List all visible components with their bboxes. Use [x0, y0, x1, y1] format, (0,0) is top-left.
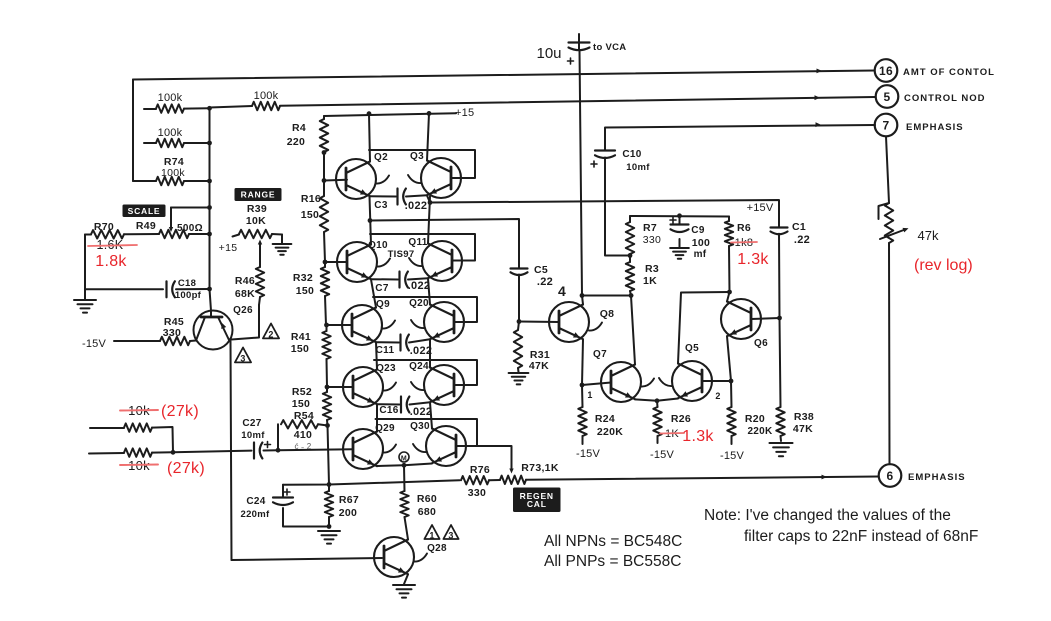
- wire Q7 emitter: [635, 399, 657, 400]
- svg-text:R46: R46: [235, 275, 255, 287]
- svg-text:C10: C10: [622, 149, 641, 160]
- label R41: [291, 331, 311, 343]
- wire C27 to node: [264, 449, 279, 451]
- label note line2: [744, 528, 978, 545]
- capacitor C3 .022: [398, 189, 406, 205]
- svg-text:C11: C11: [376, 345, 395, 356]
- label R54: [294, 410, 314, 422]
- wire Q10 node to Q9: [371, 279, 376, 307]
- wire Q11 collector up: [428, 196, 430, 243]
- node dot Q8 collector: [580, 293, 585, 298]
- label 1.8k red: [95, 253, 127, 270]
- node dot bus/100k row1: [207, 106, 212, 111]
- label All NPNs: [544, 533, 682, 550]
- svg-text:4: 4: [558, 283, 566, 299]
- node dot C9 rail: [677, 213, 682, 218]
- wire Q10 base: [325, 261, 347, 263]
- node dot rail Q3: [427, 111, 432, 116]
- svg-text:47K: 47K: [529, 360, 549, 372]
- svg-text:3: 3: [240, 354, 245, 364]
- wire Q28 base line: [232, 558, 383, 560]
- wire Q3 collector up: [427, 113, 429, 160]
- svg-text:.022: .022: [405, 200, 428, 212]
- svg-text:R6: R6: [737, 222, 751, 234]
- svg-text:10u: 10u: [536, 45, 561, 62]
- wire Q10 collector up: [370, 244, 372, 246]
- label 1 node: [587, 390, 592, 400]
- label 220K R24: [597, 426, 623, 438]
- svg-text:Q29: Q29: [375, 423, 395, 434]
- capacitor C27 10mf: [254, 442, 271, 459]
- warning triangle 1 Q28: [424, 525, 439, 541]
- label Q2: [374, 152, 388, 163]
- resistor 100k (row 2): [144, 139, 209, 147]
- resistor R74 100k: [133, 177, 209, 185]
- svg-text:-15V: -15V: [576, 448, 600, 460]
- svg-text:+15V: +15V: [747, 202, 774, 214]
- label Q28: [427, 543, 447, 554]
- label R76: [470, 464, 490, 476]
- transistor Q24: [424, 365, 464, 405]
- wire chain to R67: [328, 426, 330, 485]
- svg-text:Note: I've changed the values: Note: I've changed the values of the: [704, 507, 951, 524]
- svg-text:R54: R54: [294, 410, 314, 422]
- label .22 C5: [537, 276, 553, 288]
- svg-text:filter caps to 22nF instead of: filter caps to 22nF instead of 68nF: [744, 528, 978, 545]
- capacitor C18: [85, 281, 210, 297]
- label to VCA: [593, 42, 626, 53]
- svg-text:C3: C3: [374, 200, 388, 211]
- svg-text:Q10: Q10: [368, 240, 388, 251]
- svg-text:Q20: Q20: [409, 298, 429, 309]
- capacitor C9 100mf: [670, 216, 689, 247]
- svg-text:330: 330: [163, 327, 181, 339]
- label 4 near Q8: [558, 283, 566, 299]
- svg-text:R3: R3: [645, 263, 659, 275]
- label 1K R3: [643, 275, 657, 287]
- svg-text:R32: R32: [293, 272, 313, 284]
- svg-text:R73,1K: R73,1K: [521, 462, 559, 474]
- node dot M: [402, 463, 407, 468]
- node dot stage1 tap: [428, 200, 433, 205]
- label 10mf C27: [241, 430, 265, 441]
- node dot bus/R49 wiper: [207, 205, 212, 210]
- wire Q8 collector: [582, 296, 583, 305]
- svg-text:68K: 68K: [235, 288, 255, 300]
- svg-text:7: 7: [883, 119, 890, 133]
- svg-text:.22: .22: [794, 234, 810, 246]
- wire Q2 emitter node to Q10: [370, 197, 372, 245]
- svg-text:C27: C27: [242, 418, 261, 429]
- svg-text:150: 150: [291, 343, 309, 355]
- wire to pin 16: [133, 71, 875, 80]
- label Q20: [409, 298, 429, 309]
- svg-text:R41: R41: [291, 331, 311, 343]
- label C9: [691, 225, 705, 236]
- label (rev log) red: [914, 257, 973, 274]
- label C10: [622, 149, 641, 160]
- label Q8: [600, 308, 615, 320]
- label R20: [745, 413, 765, 425]
- svg-text:150: 150: [301, 209, 319, 221]
- wire Q7 collector up: [631, 296, 635, 365]
- svg-text:Q11: Q11: [408, 237, 427, 248]
- label 150 R52: [292, 398, 310, 410]
- svg-text:3: 3: [448, 531, 453, 541]
- svg-text:RANGE: RANGE: [241, 190, 276, 200]
- wire top-left vertical bus: [132, 80, 134, 182]
- label 330 R7: [643, 234, 661, 246]
- resistor R20 220K: [727, 381, 735, 444]
- label note line1: [704, 507, 951, 524]
- svg-text:330: 330: [468, 487, 486, 499]
- transistor Q26: [194, 311, 233, 350]
- label (27k) lower red: [167, 460, 205, 477]
- svg-text:C16: C16: [379, 405, 398, 416]
- arrow on pin-7 wire: [816, 122, 822, 127]
- node dot R7/R3: [628, 253, 633, 258]
- label C27: [242, 418, 261, 429]
- svg-text:R4: R4: [292, 122, 306, 134]
- wire C10 down to R7/R3: [605, 158, 630, 256]
- svg-text:C1: C1: [792, 221, 806, 233]
- transistor Q9: [342, 305, 382, 345]
- label 330 R45: [163, 327, 181, 339]
- label R39: [247, 203, 267, 215]
- svg-text:Q7: Q7: [593, 349, 607, 360]
- svg-text:R26: R26: [671, 413, 691, 425]
- transistor Q29: [343, 429, 383, 469]
- wire left bus vertical: [209, 108, 211, 289]
- label 500ohm: [177, 223, 203, 234]
- resistor R45 330: [114, 337, 196, 345]
- wire pair emitters: [657, 399, 678, 401]
- transistor Q6: [721, 299, 761, 339]
- label 680: [418, 506, 436, 518]
- resistor input 10k upper: [90, 423, 173, 452]
- trimmer R49 500: [159, 230, 210, 238]
- label 47K R38: [793, 423, 813, 435]
- resistor R52 150: [323, 387, 331, 426]
- svg-text:Q6: Q6: [754, 338, 768, 349]
- label EMPHASIS 6: [908, 472, 966, 483]
- label 10K: [246, 215, 266, 227]
- svg-text:47K: 47K: [793, 423, 813, 435]
- wiper of R49: [169, 208, 210, 233]
- wire Q28 emitter to ground: [404, 574, 408, 584]
- node dot bus/C18: [207, 287, 212, 292]
- label R46: [235, 275, 255, 287]
- connector pin 6: [879, 464, 902, 487]
- wire C1 down: [778, 234, 781, 318]
- svg-text:10mf: 10mf: [241, 430, 265, 441]
- label C24: [246, 496, 265, 507]
- wire Q3 emitter node: [427, 196, 430, 203]
- svg-text:1.3k: 1.3k: [682, 428, 714, 445]
- label R60: [417, 493, 437, 505]
- label .022 C3: [405, 200, 428, 212]
- label R67: [339, 494, 359, 506]
- wire node to Q29 base: [278, 449, 353, 450]
- svg-text:1.8k: 1.8k: [95, 253, 127, 270]
- svg-text:C5: C5: [534, 264, 548, 276]
- resistor 100k (row 1): [144, 104, 209, 112]
- svg-text:R38: R38: [794, 411, 814, 423]
- svg-text:All PNPs = BC558C: All PNPs = BC558C: [544, 553, 681, 570]
- ground below R70: [74, 300, 96, 313]
- node dot chain R54: [325, 423, 330, 428]
- node dot Q6 base/C1: [777, 316, 782, 321]
- node dot chain stage3: [324, 323, 329, 328]
- label All PNPs: [544, 553, 681, 570]
- svg-text:R20: R20: [745, 413, 765, 425]
- svg-text:R39: R39: [247, 203, 267, 215]
- svg-text:Q23: Q23: [376, 363, 396, 374]
- svg-text:100k: 100k: [161, 167, 185, 179]
- wire Q8/R3 link: [582, 295, 633, 297]
- svg-text:Q24: Q24: [409, 361, 429, 372]
- label 10k lower struck: [120, 458, 158, 473]
- svg-text:C24: C24: [246, 496, 265, 507]
- wire Q23 node to Q29: [376, 404, 378, 431]
- warning triangle 3 Q28: [443, 525, 458, 541]
- svg-text:220mf: 220mf: [241, 509, 270, 520]
- label C5: [534, 264, 548, 276]
- capacitor 10u to VCA: [568, 34, 590, 64]
- node dot R67 top: [327, 482, 332, 487]
- transistor Q7: [601, 362, 641, 402]
- svg-text:1: 1: [429, 531, 434, 541]
- node dot input join: [171, 450, 176, 455]
- svg-text:100: 100: [692, 237, 710, 249]
- label +15 near R39: [219, 242, 238, 254]
- resistor R31 47K: [514, 322, 522, 373]
- label 330 R76: [468, 487, 486, 499]
- hooks stage3: [382, 320, 424, 329]
- resistor R4 220: [320, 116, 328, 181]
- wire Q30 base to R73 wiper: [456, 446, 514, 474]
- ground below R38: [769, 443, 792, 456]
- node dot R6 bottom: [727, 290, 732, 295]
- resistor R24 220K: [578, 385, 586, 444]
- wire R70 left vertical: [84, 235, 86, 300]
- node dot R3 bottom: [629, 293, 634, 298]
- svg-text:CONTROL NOD: CONTROL NOD: [904, 93, 986, 104]
- label C1: [792, 221, 806, 233]
- svg-text:CAL: CAL: [527, 499, 547, 509]
- wire Q23 collector up: [376, 369, 378, 371]
- label -15V R26: [650, 449, 674, 461]
- wire Q9 node to Q23: [376, 342, 377, 369]
- label .022 C7: [408, 280, 431, 292]
- svg-text:1K: 1K: [643, 275, 657, 287]
- label R73 1K: [521, 462, 559, 474]
- label 100 C9: [692, 237, 710, 249]
- wire Q5 base: [702, 380, 731, 382]
- label Q26: [233, 305, 253, 316]
- svg-text:6: 6: [887, 469, 894, 483]
- label Q7: [593, 349, 607, 360]
- potentiometer 47k: [879, 203, 909, 243]
- svg-text:220: 220: [287, 136, 305, 148]
- svg-text:TIS97: TIS97: [388, 249, 415, 260]
- label Q23: [376, 363, 396, 374]
- wire C5 to Q8 base: [518, 275, 520, 322]
- wire Q8 emitter to Q7 base: [582, 383, 611, 386]
- wire C16 to Q24 emitter: [410, 402, 431, 404]
- wire input to C27: [173, 451, 252, 453]
- label R26: [671, 413, 691, 425]
- wiper of R39: [258, 240, 262, 263]
- wire Q24 node to Q30: [430, 403, 432, 429]
- label R45: [164, 316, 184, 328]
- capacitor C24 220mf: [273, 485, 329, 527]
- svg-text:(rev log): (rev log): [914, 257, 973, 274]
- hooks stage2: [377, 258, 422, 267]
- transistor Q3: [421, 158, 461, 198]
- wire tap to C5: [370, 219, 519, 268]
- label R3: [645, 263, 659, 275]
- hook Q8: [589, 323, 602, 331]
- capacitor C7 .022: [400, 272, 408, 288]
- label Q10: [368, 240, 388, 251]
- wire Q20 base loop: [373, 297, 477, 322]
- svg-text:1: 1: [587, 390, 592, 400]
- svg-text:to VCA: to VCA: [593, 42, 626, 53]
- wire Q20 node to Q24: [429, 340, 431, 368]
- svg-text:AMT OF CONTOL: AMT OF CONTOL: [903, 67, 995, 78]
- transistor Q8: [549, 302, 589, 342]
- wire stage1 tap to C1: [430, 200, 779, 227]
- svg-text:500Ω: 500Ω: [177, 223, 203, 234]
- svg-text:ć ˗ 2: ć ˗ 2: [294, 442, 311, 451]
- resistor input 10k lower: [89, 448, 173, 456]
- svg-text:R49: R49: [136, 220, 156, 232]
- svg-text:Q26: Q26: [233, 305, 253, 316]
- label 2 node: [715, 391, 720, 401]
- svg-text:2: 2: [268, 330, 273, 340]
- wire Q29 emitter to M: [377, 464, 404, 467]
- label TIS97: [388, 249, 415, 260]
- label R74: [164, 156, 184, 168]
- svg-text:R16: R16: [301, 193, 321, 205]
- wire C11 to Q20 emitter: [409, 339, 430, 342]
- label C16: [379, 405, 398, 416]
- wire Q2 collector up: [369, 114, 370, 162]
- label 10u: [536, 45, 561, 62]
- warning triangle 3: [235, 348, 251, 364]
- svg-text:(27k): (27k): [167, 460, 205, 477]
- svg-text:410: 410: [294, 429, 312, 441]
- svg-text:2: 2: [715, 391, 720, 401]
- label C11: [376, 345, 395, 356]
- node dot R67 bottom: [327, 524, 332, 529]
- transistor Q28: [374, 537, 414, 577]
- hooks stage5: [383, 444, 426, 453]
- svg-text:200: 200: [339, 507, 357, 519]
- resistor R7 330: [626, 216, 634, 256]
- wire Q9 emitter to C11: [376, 341, 399, 343]
- label CONTROL NOD: [904, 93, 986, 104]
- resistor R26: [653, 401, 661, 443]
- capacitor C1 .22: [771, 228, 788, 235]
- resistor 100k (to pin 5): [210, 97, 876, 110]
- wire Q26 emitter down: [231, 341, 232, 560]
- label 1K struck: [660, 428, 684, 440]
- svg-text:M: M: [401, 455, 407, 462]
- transistor Q20: [424, 302, 464, 342]
- resistor R67 200: [325, 485, 333, 527]
- svg-text:Q3: Q3: [410, 151, 424, 162]
- label 47K R31: [529, 360, 549, 372]
- label EMPHASIS 7: [906, 122, 964, 133]
- label -15V R20: [720, 450, 744, 462]
- transistor Q11: [422, 241, 462, 281]
- svg-text:1.3k: 1.3k: [737, 251, 769, 268]
- wire M to Q30 emitter: [404, 464, 432, 466]
- svg-text:100k: 100k: [158, 92, 183, 104]
- wire Q3 base loop: [369, 150, 475, 178]
- resistor R41 150: [322, 325, 330, 387]
- wire Q24 collector up: [429, 367, 431, 369]
- arrow on emphasis wire: [822, 475, 828, 480]
- resistor R60 680: [400, 465, 408, 539]
- transistor Q30: [426, 426, 466, 466]
- svg-text:100pf: 100pf: [175, 290, 202, 301]
- label 100k row2: [158, 127, 183, 139]
- label Q11: [408, 237, 427, 248]
- label 220: [287, 136, 305, 148]
- label box REGEN CAL: [513, 488, 561, 513]
- node dot Q5 base/Q6 emitter: [729, 379, 734, 384]
- capacitor C16 .022: [401, 397, 409, 413]
- svg-text:Q30: Q30: [410, 421, 430, 432]
- wire to Q8 base: [519, 321, 559, 324]
- label 68K: [235, 288, 255, 300]
- svg-text:R24: R24: [595, 413, 615, 425]
- svg-text:.022: .022: [410, 406, 433, 418]
- svg-text:All NPNs = BC548C: All NPNs = BC548C: [544, 533, 682, 550]
- wire +15V rail: [630, 215, 729, 218]
- label 150 R16: [301, 209, 319, 221]
- label R16: [301, 193, 321, 205]
- label 1.3k red R6: [737, 251, 769, 268]
- svg-text:.022: .022: [408, 280, 431, 292]
- label .22 C1: [794, 234, 810, 246]
- wire R73 to pin6: [526, 477, 879, 480]
- arrow on pin-16 wire: [817, 69, 823, 74]
- connector pin 5: [876, 85, 899, 108]
- svg-text:16: 16: [879, 64, 893, 78]
- label R31: [530, 349, 550, 361]
- svg-text:R67: R67: [339, 494, 359, 506]
- resistor R70: [85, 230, 159, 238]
- label AMT OF CONTROL: [903, 67, 995, 78]
- hooks Q7 Q5 pair: [641, 378, 672, 387]
- label R74 100k: [161, 167, 185, 179]
- node dot bus/100k row2: [207, 141, 212, 146]
- svg-text:330: 330: [643, 234, 661, 246]
- wire Q6 base: [751, 318, 780, 319]
- arrow on pin-5 wire: [815, 95, 821, 100]
- svg-text:C7: C7: [375, 283, 389, 294]
- svg-text:-15V: -15V: [720, 450, 744, 462]
- wire C3 to Q3 emitter: [406, 195, 427, 196]
- wire pot to pin6: [888, 243, 891, 464]
- hooks stage1: [376, 175, 421, 184]
- svg-text:.022: .022: [410, 345, 433, 357]
- label -15V left: [82, 338, 106, 350]
